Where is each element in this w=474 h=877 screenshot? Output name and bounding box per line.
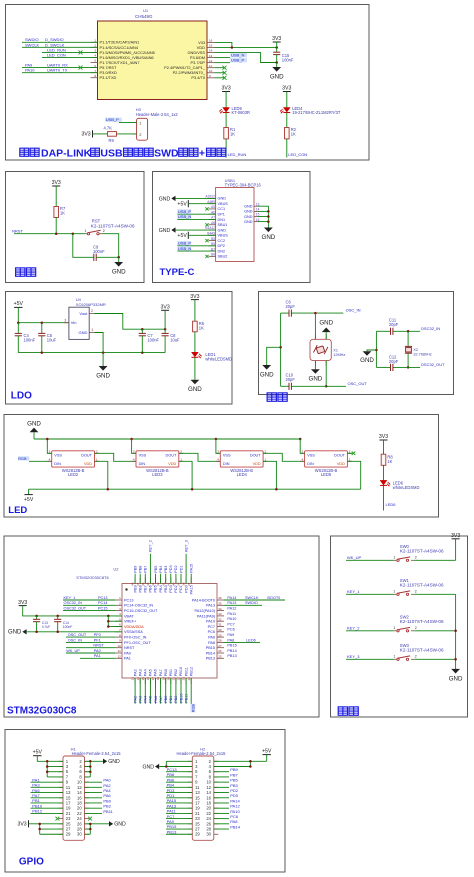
svg-text:+: +: [199, 148, 205, 160]
WS2812B-B LED5: [300, 450, 352, 477]
junction: [325, 385, 328, 388]
net WK_UP: [346, 555, 394, 560]
svg-text:whiteLEDSMD: whiteLEDSMD: [205, 357, 232, 362]
wire VSS LED5: [300, 439, 304, 453]
power +5V type-c group 2: [177, 232, 215, 239]
svg-text:GND: GND: [79, 330, 88, 335]
svg-text:PA10: PA10: [227, 617, 236, 621]
wire: [194, 357, 196, 379]
svg-text:VDD: VDD: [253, 462, 261, 466]
wire DOUT LED3 to next DIN: [179, 453, 221, 461]
svg-text:3: 3: [64, 318, 66, 322]
ground GND H1 top: [85, 759, 120, 766]
wire GND rail H1 bottom: [85, 824, 91, 834]
wire: [225, 92, 227, 108]
ground GND below X1: [309, 361, 323, 383]
connector USB1 TYPEC-304-BCP16: [205, 178, 261, 261]
junction: [38, 823, 41, 831]
svg-text:VDD: VDD: [168, 462, 176, 466]
svg-text:100nF: 100nF: [63, 625, 73, 629]
net PA0 H1: [85, 778, 112, 783]
svg-text:42: 42: [161, 582, 165, 586]
net SWDIO / D_SWDIO: [22, 37, 98, 42]
svg-text:PB12: PB12: [189, 667, 193, 676]
svg-text:26: 26: [218, 649, 222, 653]
junction: [267, 210, 270, 223]
connector H1 Header-Female-2.54_2x15: [59, 746, 122, 840]
wire GND rail H1 top: [85, 761, 91, 777]
svg-text:PB3: PB3: [164, 566, 168, 573]
svg-text:USB_P: USB_P: [231, 58, 244, 63]
svg-text:3V3: 3V3: [18, 600, 27, 606]
wire: [93, 133, 108, 135]
svg-text:1: 1: [85, 229, 87, 233]
svg-text:PA0: PA0: [124, 651, 131, 655]
svg-text:GND: GND: [319, 319, 333, 326]
svg-text:19-217/BHC-ZL1M2RY/3T: 19-217/BHC-ZL1M2RY/3T: [292, 110, 341, 115]
svg-text:3V3: 3V3: [272, 36, 281, 42]
net PA1: [80, 654, 115, 658]
junction: [35, 631, 59, 634]
net PB13: [227, 654, 236, 658]
svg-text:38: 38: [182, 582, 186, 586]
wire: [286, 92, 288, 108]
net RGB (bottom): [191, 678, 196, 712]
net PB14: [227, 649, 236, 653]
svg-text:DIN: DIN: [139, 462, 146, 466]
svg-text:PA12(PA10): PA12(PA10): [194, 609, 215, 613]
svg-text:UART0_TX: UART0_TX: [47, 68, 68, 73]
svg-text:PC15-OSC32_OUT: PC15-OSC32_OUT: [124, 609, 158, 613]
net PB11 H1: [85, 809, 114, 814]
power 3V3 flag LED4: [282, 86, 291, 92]
svg-text:12: 12: [209, 59, 213, 63]
svg-text:20pF: 20pF: [389, 322, 399, 327]
svg-text:30: 30: [206, 832, 211, 837]
svg-text:PC14: PC14: [98, 601, 108, 605]
power +5V flag LDO: [14, 301, 24, 307]
net WK_UP to PA0: [66, 649, 115, 653]
svg-text:PF0: PF0: [94, 633, 101, 637]
bottom stub nets: [133, 678, 188, 704]
wire GND/VSS: [215, 53, 277, 63]
net PC7: [227, 622, 234, 626]
svg-text:K2-1107ST-A4SW-06: K2-1107ST-A4SW-06: [400, 648, 444, 653]
wire left vertical: [280, 313, 282, 386]
svg-text:29: 29: [218, 633, 222, 637]
svg-text:14: 14: [209, 49, 213, 53]
svg-text:100nF: 100nF: [93, 249, 105, 254]
power 3V3 flag R8: [379, 434, 388, 440]
capacitor C6 20pF: [286, 299, 296, 316]
wire shield to ground: [258, 206, 269, 227]
svg-text:GND: GND: [142, 764, 154, 770]
svg-text:GND: GND: [159, 228, 171, 234]
svg-text:KEY_2: KEY_2: [149, 540, 153, 552]
svg-text:P3.1/TXD: P3.1/TXD: [100, 75, 117, 80]
svg-text:20pF: 20pF: [286, 304, 296, 309]
junction: [407, 366, 410, 369]
svg-text:PD3: PD3: [169, 565, 173, 572]
svg-text:+5V: +5V: [14, 301, 24, 307]
svg-text:DN2: DN2: [218, 249, 226, 253]
regulator U4 XC6206P332MR: [64, 297, 106, 339]
label LED: [8, 505, 27, 516]
svg-text:Header-Male-2.54_1x2: Header-Male-2.54_1x2: [136, 112, 179, 117]
svg-text:GND: GND: [449, 675, 463, 682]
svg-text:VBUS: VBUS: [218, 234, 229, 238]
svg-text:100nF: 100nF: [282, 57, 294, 62]
svg-text:11: 11: [118, 649, 121, 653]
svg-text:4.7K: 4.7K: [104, 126, 113, 131]
wire: [96, 256, 119, 258]
net USB_N to DN1: [177, 214, 215, 219]
net PD0 H2: [214, 793, 239, 798]
svg-text:13: 13: [131, 677, 135, 681]
svg-text:GND: GND: [188, 386, 202, 393]
svg-text:GND: GND: [218, 228, 227, 232]
net PA13 SWDIO: [224, 601, 262, 605]
svg-text:PA1: PA1: [124, 657, 131, 661]
resistor R1 1K: [224, 127, 236, 139]
net PD3 H2: [166, 788, 192, 793]
junction: [191, 488, 194, 491]
junction: [279, 346, 282, 349]
ground GND flag U2: [8, 629, 27, 636]
wire OSC_IN rail: [281, 308, 361, 314]
svg-text:29: 29: [195, 832, 200, 837]
net PA10 / UART0_TX: [22, 68, 98, 73]
wire GND rail LDO: [18, 352, 165, 354]
junction: [215, 438, 218, 441]
capacitor C12 20pF: [389, 354, 399, 371]
svg-text:+5V: +5V: [33, 749, 43, 755]
svg-text:1: 1: [92, 328, 94, 332]
svg-text:PF1: PF1: [94, 638, 101, 642]
svg-text:K2-1107ST-A4SW-06: K2-1107ST-A4SW-06: [91, 224, 135, 229]
svg-text:TYPE-C: TYPE-C: [160, 267, 195, 278]
svg-text:KT-0603R: KT-0603R: [232, 110, 250, 115]
wire DOUT LED4 to next DIN: [263, 453, 305, 461]
svg-text:1: 1: [393, 590, 395, 594]
ground GND LED1: [188, 380, 202, 394]
LED LED4 19-217/BHC-ZL1M2RY/3T: [280, 106, 341, 115]
svg-text:20pF: 20pF: [286, 377, 296, 382]
svg-text:OSC_OUT: OSC_OUT: [348, 381, 368, 386]
svg-text:20pF: 20pF: [389, 359, 399, 364]
junction: [107, 620, 110, 628]
svg-text:22: 22: [177, 677, 181, 681]
svg-text:SBU1: SBU1: [218, 223, 228, 227]
ground GND reset: [112, 257, 126, 275]
svg-text:GND: GND: [114, 822, 126, 828]
ground GND above X1: [319, 319, 333, 339]
switch RST K2-1107ST-A4SW-06: [85, 218, 135, 234]
svg-text:PA8: PA8: [208, 641, 215, 645]
wire: [194, 332, 196, 353]
svg-text:LED_CON: LED_CON: [288, 152, 307, 157]
wire: [414, 630, 455, 632]
svg-text:LED2: LED2: [68, 472, 79, 477]
svg-text:NRST: NRST: [93, 644, 104, 648]
net PA14 H2: [214, 798, 241, 803]
svg-text:VDD: VDD: [84, 462, 92, 466]
label 晶振: [267, 393, 287, 401]
svg-text:OSC_IN: OSC_IN: [68, 638, 82, 642]
svg-text:GND: GND: [244, 205, 253, 209]
resistor R6 1K: [193, 321, 205, 332]
svg-text:KEY_3: KEY_3: [184, 540, 188, 552]
svg-text:Vin: Vin: [71, 320, 77, 325]
svg-text:PC13: PC13: [124, 598, 134, 602]
ground GND crystal left: [260, 365, 274, 379]
svg-text:STM32G030C8T6: STM32G030C8T6: [76, 575, 109, 580]
net PC6 H2: [214, 814, 239, 819]
net PC13 H2: [166, 767, 192, 772]
net USB_P to H3 pin1: [105, 117, 137, 122]
net PA7 H1: [31, 793, 64, 798]
svg-text:PC6: PC6: [227, 628, 234, 632]
svg-text:PF0-OSC_IN: PF0-OSC_IN: [124, 636, 147, 640]
ground GND type-c group 1: [159, 196, 216, 203]
svg-text:44: 44: [151, 582, 155, 586]
net PB6 H2: [166, 777, 192, 782]
ground GND type-c: [262, 228, 276, 242]
label LDO: [11, 391, 32, 402]
net OSC_OUT to PF0: [66, 633, 115, 637]
LED LED9 KT-0603R: [219, 106, 250, 115]
svg-text:12: 12: [117, 655, 121, 659]
ground GND type-c group 2: [159, 227, 216, 234]
svg-text:PA12: PA12: [227, 607, 236, 611]
wire right-left vertical: [375, 331, 377, 367]
svg-text:KEY_1: KEY_1: [64, 596, 76, 600]
svg-text:48: 48: [131, 582, 135, 586]
net PC7 H2: [166, 814, 192, 819]
svg-text:LED5: LED5: [321, 472, 332, 477]
svg-text:PB13: PB13: [206, 657, 215, 661]
svg-text:100nF: 100nF: [24, 337, 36, 342]
svg-text:SWCLK: SWCLK: [245, 596, 259, 600]
svg-text:LED_RUN: LED_RUN: [228, 152, 247, 157]
net PA5 H1: [31, 788, 64, 793]
power 3V3 sideways: [81, 130, 92, 137]
wire: [17, 307, 19, 322]
svg-text:CC2: CC2: [218, 239, 226, 243]
wire: [407, 353, 409, 367]
wire VDD to 3V3: [215, 46, 277, 48]
net PB8 H2: [166, 772, 192, 777]
wire DOUT LED5 no-connect: [347, 452, 355, 456]
svg-text:WK_UP: WK_UP: [66, 649, 80, 653]
svg-text:40: 40: [172, 582, 176, 586]
svg-text:LED6: LED6: [386, 502, 397, 507]
svg-text:PB0: PB0: [164, 669, 168, 676]
net PB10 H1: [31, 803, 64, 808]
svg-text:VBUS: VBUS: [218, 202, 229, 206]
wire C9 branch: [73, 234, 94, 258]
svg-text:TYPEC-304-BCP16: TYPEC-304-BCP16: [225, 183, 262, 188]
svg-text:USB_N: USB_N: [178, 214, 191, 219]
wire: [194, 300, 196, 322]
svg-text:U2: U2: [113, 567, 119, 572]
net PA12: [227, 607, 236, 611]
net KEY_3: [346, 654, 394, 659]
svg-text:R9: R9: [109, 138, 115, 143]
svg-text:VDD: VDD: [337, 462, 345, 466]
svg-text:13: 13: [209, 54, 213, 58]
svg-text:1K: 1K: [291, 132, 296, 137]
svg-text:BOOT0: BOOT0: [267, 596, 280, 600]
no-connect H1 pins 23/24: [56, 817, 93, 821]
svg-text:VBAT: VBAT: [124, 614, 134, 618]
svg-text:1: 1: [393, 655, 395, 659]
svg-text:LED3: LED3: [152, 472, 163, 477]
svg-text:17: 17: [151, 677, 155, 681]
junction: [46, 438, 49, 441]
svg-text:GND: GND: [262, 234, 276, 241]
net PA4 H1: [85, 788, 112, 793]
svg-text:1K: 1K: [387, 459, 392, 464]
svg-text:16: 16: [146, 677, 150, 681]
net PA9 / UART0_RX: [22, 63, 98, 70]
svg-text:NRST: NRST: [124, 646, 135, 650]
svg-text:DIN: DIN: [54, 462, 61, 466]
wire VSS LED4: [216, 439, 220, 453]
svg-text:PA14-BOOT0: PA14-BOOT0: [192, 598, 215, 602]
svg-text:3V3: 3V3: [52, 180, 61, 186]
svg-text:PB10: PB10: [179, 667, 183, 676]
svg-text:LDO: LDO: [11, 391, 32, 402]
switch SW0 K2-1107ST-A4SW-06: [393, 544, 444, 561]
svg-text:2: 2: [415, 626, 417, 630]
net PB3 H2: [214, 783, 239, 788]
svg-text:10uF: 10uF: [47, 337, 57, 342]
svg-text:PA2: PA2: [133, 696, 137, 703]
svg-text:USB: USB: [100, 148, 123, 160]
svg-text:PA9: PA9: [208, 636, 215, 640]
svg-text:GND: GND: [112, 269, 126, 276]
net PB15 H2: [166, 824, 192, 829]
capacitor C10 20pF: [286, 373, 296, 390]
svg-text:PB2: PB2: [174, 696, 178, 703]
svg-text:2: 2: [415, 556, 417, 560]
net PB13 H2: [166, 829, 192, 834]
svg-text:PB12: PB12: [32, 809, 43, 814]
wire 3V3 to VBAT: [23, 606, 122, 616]
svg-text:OSC_IN: OSC_IN: [346, 308, 361, 313]
net OSC32_OUT to PC15: [63, 607, 115, 611]
ground GND H1 bottom: [85, 821, 126, 828]
svg-text:PA4: PA4: [144, 669, 148, 676]
svg-text:29: 29: [66, 832, 71, 837]
svg-text:PA13: PA13: [227, 601, 236, 605]
resistor R9 4.7K: [104, 126, 117, 143]
net OSC_IN to PF1: [66, 638, 115, 642]
net KEY_1 to PC13: [63, 596, 115, 600]
junction: [314, 312, 317, 315]
svg-text:GND: GND: [360, 357, 374, 364]
net USB_P to DP1: [177, 209, 215, 214]
net KEY_3 (top): [184, 540, 188, 583]
svg-text:PA6: PA6: [154, 669, 158, 676]
svg-text:DOUT: DOUT: [166, 454, 177, 458]
svg-text:KEY_1: KEY_1: [347, 589, 360, 594]
svg-text:DAP-LINK: DAP-LINK: [41, 148, 92, 160]
svg-text:24: 24: [187, 677, 191, 681]
svg-text:3V3: 3V3: [160, 305, 169, 311]
junction: [407, 330, 410, 333]
svg-text:47: 47: [136, 582, 140, 586]
capacitor C8 10uF: [162, 329, 181, 352]
wire: [117, 133, 137, 135]
net PA13 H2: [166, 803, 192, 808]
svg-text:PC7: PC7: [208, 625, 215, 629]
switch SW1 K2-1107ST-A4SW-06: [393, 578, 444, 595]
junction: [375, 349, 378, 352]
svg-text:+5V: +5V: [177, 201, 187, 207]
net PD2 H2: [214, 788, 239, 793]
svg-text:33: 33: [218, 612, 222, 616]
wire VDD LED4 to +5V: [263, 461, 276, 489]
svg-text:2: 2: [103, 229, 105, 233]
net PA10 H2: [214, 809, 241, 814]
net PD1 H2: [166, 793, 192, 798]
wire: [314, 313, 316, 339]
svg-text:10uF: 10uF: [170, 337, 180, 342]
svg-text:PA9: PA9: [227, 633, 234, 637]
svg-text:Vout: Vout: [79, 311, 88, 316]
net PB9 H2: [214, 767, 239, 772]
junction: [89, 823, 92, 831]
svg-text:OSC_OUT: OSC_OUT: [68, 633, 87, 637]
junction: [89, 760, 92, 773]
svg-text:DP1: DP1: [218, 213, 225, 217]
svg-text:30: 30: [77, 832, 82, 837]
junction: [231, 46, 234, 49]
svg-text:PB11: PB11: [184, 667, 188, 676]
net PA6 H1: [85, 793, 112, 798]
svg-text:DIN: DIN: [223, 462, 230, 466]
net PB2 H1: [85, 804, 112, 809]
svg-text:CC1: CC1: [218, 207, 226, 211]
svg-text:B8: B8: [211, 253, 215, 257]
wire VSS LED2: [47, 439, 51, 453]
svg-text:PA15: PA15: [190, 564, 194, 573]
svg-text:X2: X2: [413, 348, 418, 352]
svg-text:46: 46: [141, 582, 145, 586]
svg-text:K2-1107ST-A4SW-06: K2-1107ST-A4SW-06: [400, 583, 444, 588]
ground GND flag LED top: [27, 421, 41, 439]
switch SW3 K2-1107ST-A4SW-06: [393, 643, 444, 660]
svg-text:RGB: RGB: [18, 457, 27, 461]
net LED_RUN: [42, 47, 98, 54]
svg-text:GND: GND: [8, 630, 22, 636]
junction: [55, 232, 58, 235]
svg-text:PA14: PA14: [227, 596, 236, 600]
svg-text:SWCLK: SWCLK: [25, 42, 40, 47]
junction: [17, 321, 43, 324]
svg-text:PB14: PB14: [206, 651, 215, 655]
capacitor C14 100nF: [54, 616, 72, 632]
wire / net LED_RUN: [226, 139, 246, 158]
label TYPE-C: [160, 267, 195, 278]
junction: [275, 488, 278, 491]
junction: [117, 256, 120, 259]
wire OSC32_OUT rail: [376, 362, 445, 367]
connector H2 Header-Female-2.54_2x15: [177, 746, 227, 840]
svg-text:SBU2: SBU2: [218, 255, 228, 259]
